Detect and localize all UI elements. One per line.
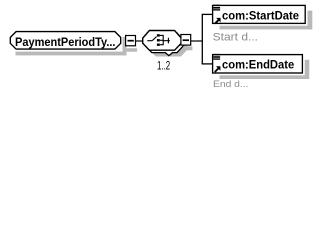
svg-text:Start d...: Start d... bbox=[213, 32, 258, 44]
reference arrow icon StartDate bbox=[215, 18, 221, 24]
choice compositor octagon bbox=[143, 31, 182, 51]
element com:EndDate box bbox=[213, 55, 303, 73]
choice icon inside compositor bbox=[147, 35, 170, 45]
branch wire to EndDate bbox=[202, 63, 213, 65]
choice compositor shadow bbox=[149, 37, 188, 57]
expand button 1 (minus box) bbox=[126, 36, 136, 46]
branch wire to StartDate bbox=[202, 13, 213, 15]
stacked outline V notch bbox=[165, 52, 172, 56]
element com:StartDate box bbox=[213, 5, 306, 23]
wire button2 to trunk bbox=[191, 40, 203, 42]
svg-text:PaymentPeriodTy...: PaymentPeriodTy... bbox=[15, 35, 116, 49]
complexType PaymentPeriodType shadow bbox=[16, 37, 127, 56]
trunk vertical wire bbox=[201, 14, 203, 64]
expand button 2 shadow bbox=[183, 46, 192, 50]
element com:StartDate shadow bbox=[220, 11, 313, 30]
expand button 2 (minus box) bbox=[181, 35, 191, 46]
choice compositor stacked outline (maxOccurs>1) bbox=[145, 33, 184, 53]
complexType PaymentPeriodType box bbox=[10, 32, 120, 49]
element com:EndDate shadow bbox=[220, 60, 310, 79]
expand button 1 shadow bbox=[127, 48, 138, 52]
svg-text:End d...: End d... bbox=[213, 79, 249, 89]
annotation icon StartDate bbox=[213, 5, 220, 11]
wire button1 to choice compositor bbox=[136, 40, 144, 42]
reference arrow icon EndDate bbox=[215, 66, 221, 72]
svg-text:com:StartDate: com:StartDate bbox=[222, 8, 299, 22]
svg-text:1..2: 1..2 bbox=[157, 59, 170, 72]
annotation icon EndDate bbox=[213, 54, 220, 60]
svg-text:com:EndDate: com:EndDate bbox=[222, 58, 295, 72]
